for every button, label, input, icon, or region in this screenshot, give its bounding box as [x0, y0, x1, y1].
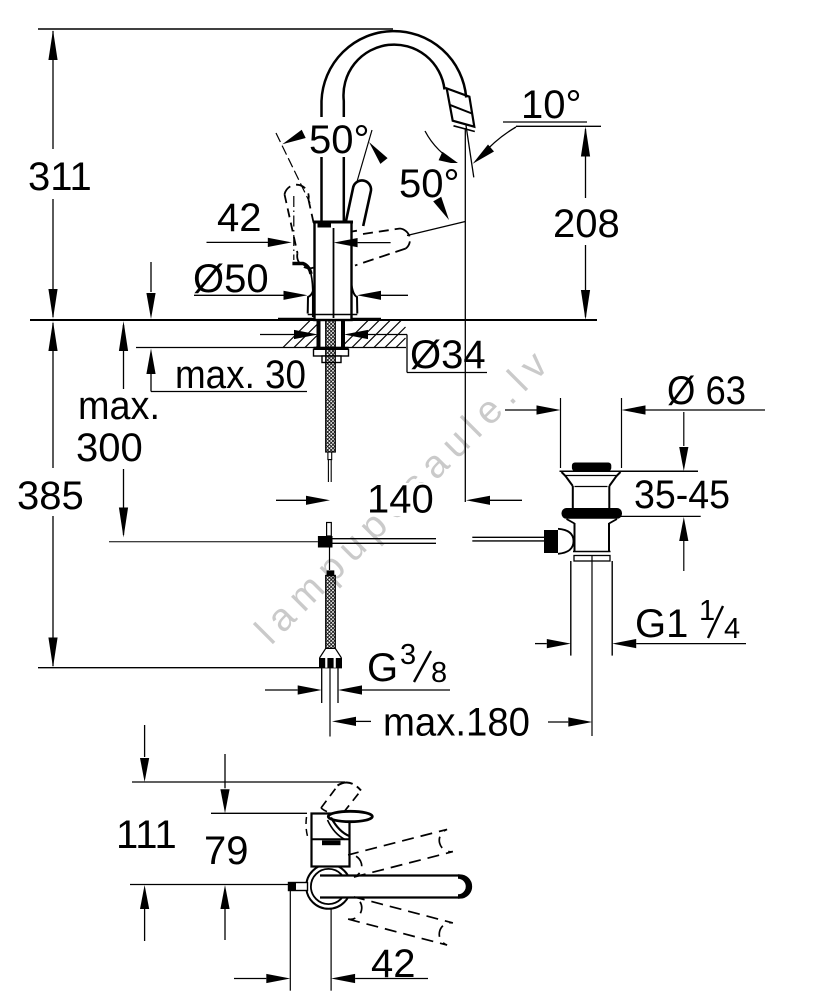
spout tube and riser	[322, 31, 467, 222]
svg-text:111: 111	[116, 813, 177, 857]
dimension 10 degree with curved arrow	[473, 83, 601, 164]
horizontal pop-up rod	[109, 537, 545, 543]
bottom view body bar	[312, 839, 349, 845]
dimension max.180	[332, 701, 592, 745]
drain tailpipe	[571, 556, 612, 736]
bottom view ref line spout top	[132, 781, 345, 783]
dimension G1 1/4	[535, 595, 746, 648]
dimension diameter 50	[193, 257, 408, 301]
dimension 50 degree left	[276, 116, 388, 216]
svg-text:208: 208	[553, 202, 620, 246]
top reference line	[38, 28, 393, 30]
aerator 10deg tilted line	[466, 126, 474, 178]
svg-text:Ø 63: Ø 63	[667, 369, 746, 413]
counter hatching	[283, 320, 406, 348]
svg-text:311: 311	[28, 155, 92, 199]
bottom view dashed handle lower right	[348, 897, 453, 945]
dimension 311 vertical	[28, 30, 92, 319]
svg-text:3: 3	[400, 639, 416, 671]
counter deck line	[30, 318, 597, 321]
pop-up lever rod at faucet	[292, 264, 312, 318]
bottom view dashed handle upper right	[348, 829, 453, 877]
svg-text:max.: max.	[78, 384, 160, 428]
svg-text:G1: G1	[635, 602, 688, 646]
counter bottom line	[136, 347, 406, 349]
dimension 79	[204, 754, 249, 940]
bottom view outlet stub	[289, 883, 308, 891]
dimension 50 degree right	[396, 131, 465, 236]
svg-text:42: 42	[371, 942, 416, 986]
solid handle	[346, 180, 371, 226]
supply pipe end	[322, 668, 338, 737]
svg-text:Ø50: Ø50	[193, 257, 269, 301]
flexible hose lower	[320, 570, 342, 658]
dimension max.300 vertical	[76, 321, 160, 538]
shank walls below deck	[317, 321, 346, 347]
bottom view dashed handle up	[306, 782, 361, 838]
drain plug cap	[572, 463, 611, 472]
bottom view ref line body top	[211, 812, 307, 814]
svg-text:8: 8	[431, 657, 447, 689]
svg-text:385: 385	[17, 474, 84, 518]
drain lower body	[567, 519, 618, 561]
right dashed handle position	[352, 229, 410, 266]
svg-text:Ø34: Ø34	[410, 333, 486, 377]
faucet base flare	[308, 285, 358, 315]
svg-text:max.180: max.180	[383, 701, 530, 745]
drain gasket ring	[562, 508, 623, 519]
dimension 140	[276, 478, 522, 522]
dimension diameter 34 with leader	[260, 330, 487, 377]
dimension 35-45	[616, 412, 736, 571]
bottom view solid handle	[320, 876, 471, 898]
svg-text:300: 300	[76, 426, 143, 470]
drain flange body	[560, 471, 699, 508]
svg-text:50°: 50°	[399, 162, 460, 206]
bottom reference line	[38, 667, 342, 669]
svg-text:79: 79	[204, 829, 249, 873]
svg-text:10°: 10°	[521, 83, 582, 127]
dimension 385 vertical	[17, 321, 84, 668]
dimension 42 top	[207, 196, 391, 260]
pop-up rod tee connector	[318, 523, 333, 571]
svg-text:4: 4	[724, 613, 740, 645]
svg-text:42: 42	[217, 196, 262, 240]
faucet body	[313, 222, 353, 320]
mounting washer and nut	[314, 348, 349, 363]
dimension 42 bottom	[234, 891, 428, 991]
spout aerator sleeve	[447, 88, 475, 131]
svg-text:50°: 50°	[309, 118, 370, 162]
flexible hose upper	[326, 320, 336, 482]
svg-text:G: G	[367, 646, 398, 690]
drain rod socket knob	[544, 529, 574, 554]
dimension diameter 63	[505, 369, 765, 468]
svg-text:140: 140	[367, 478, 434, 522]
bottom view ref line handle axis	[130, 884, 289, 886]
svg-text:max. 30: max. 30	[175, 353, 306, 397]
bottom view spout	[328, 811, 373, 839]
dimension G3/8	[265, 639, 451, 695]
dimension max.30	[146, 262, 307, 397]
bottom view faucet body	[312, 814, 350, 867]
aerator center extension line	[464, 128, 466, 502]
G3/8 nut	[319, 658, 342, 668]
bottom view escutcheon circles	[306, 864, 351, 909]
left dashed handle position	[285, 185, 322, 269]
dimension 208 vertical	[553, 127, 620, 321]
svg-text:1: 1	[699, 595, 715, 627]
svg-text:35-45: 35-45	[634, 473, 730, 517]
dimension 111	[116, 725, 177, 941]
watermark lampuposaule.lv	[247, 338, 562, 653]
